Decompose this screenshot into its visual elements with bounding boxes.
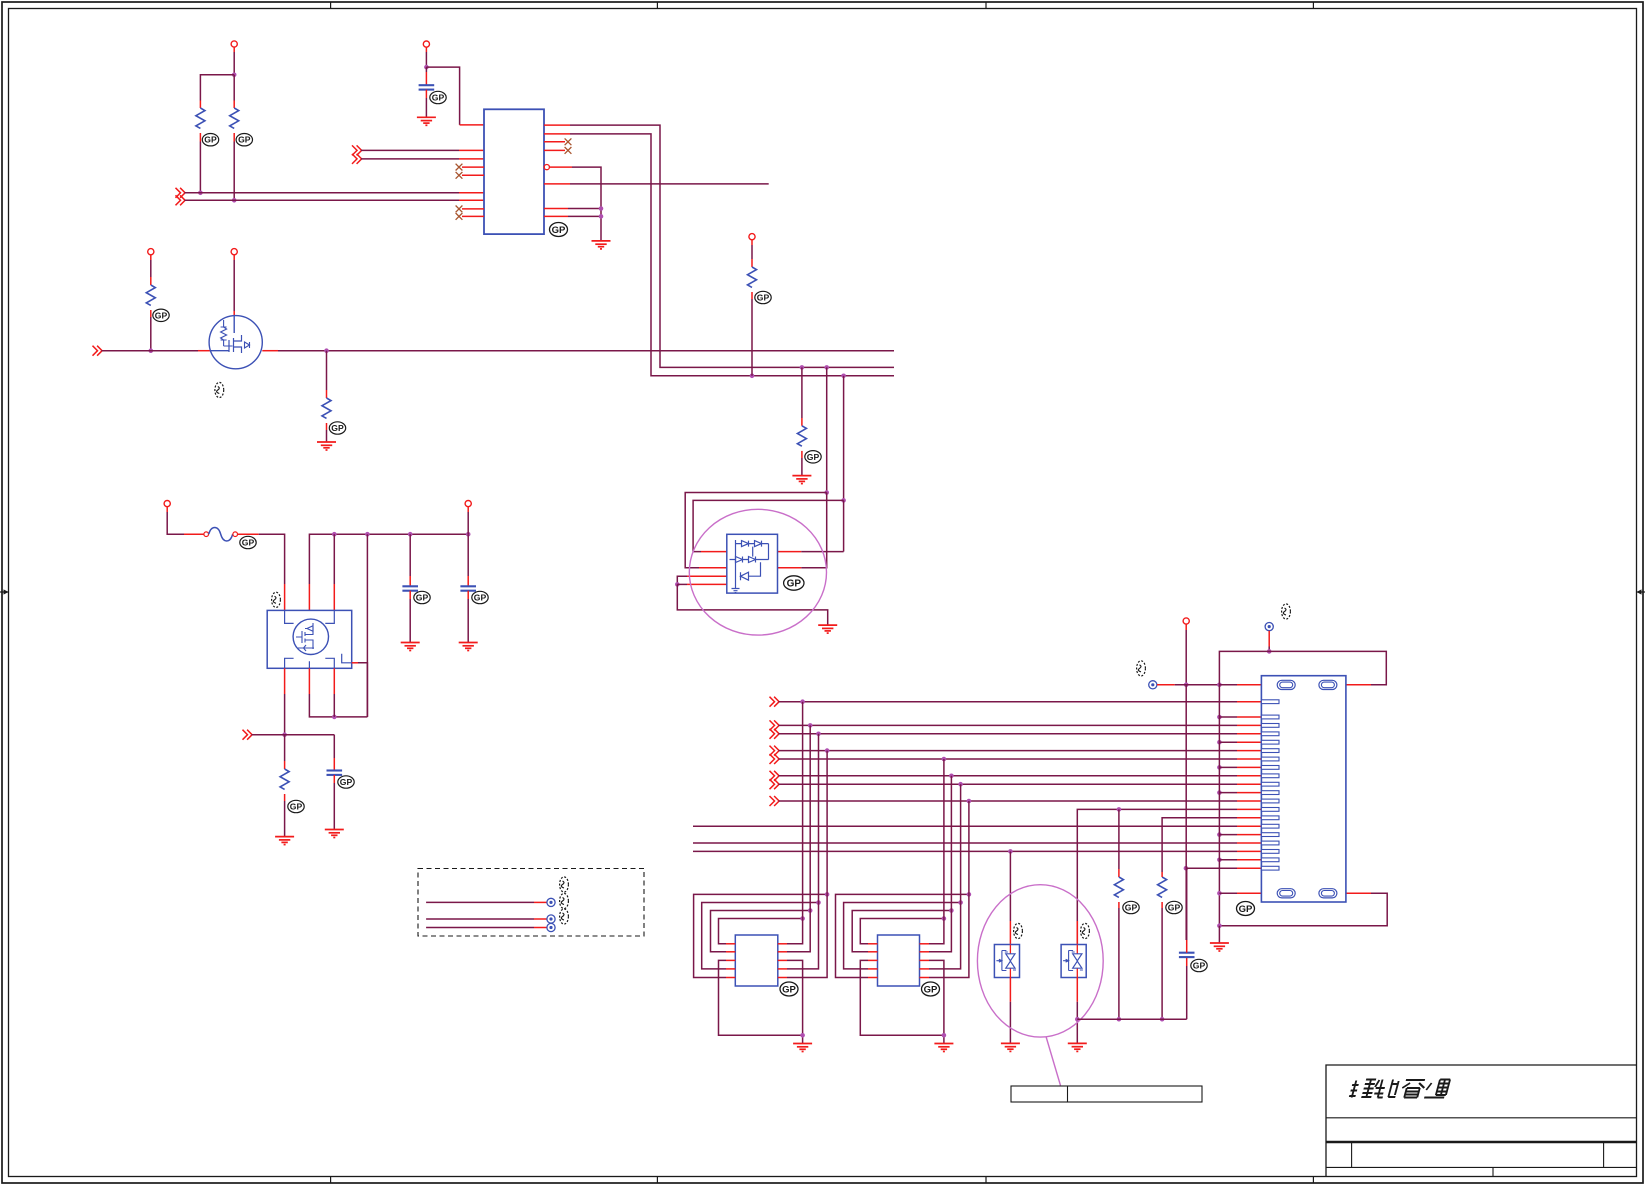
wire L2 loop y902.5 xyxy=(844,784,963,969)
label C1 GP xyxy=(430,91,446,103)
node bus B1 junctions xyxy=(800,365,829,370)
wire J1 bottom left pin xyxy=(1217,891,1261,896)
resistor R8 xyxy=(1114,809,1123,1021)
label net oval above BP2 xyxy=(1282,604,1291,619)
TVS diode D1 xyxy=(994,851,1019,1043)
testpoint TP1 xyxy=(547,898,555,906)
svg-text:GP: GP xyxy=(807,452,820,462)
input arrow net2 xyxy=(770,720,780,730)
input arrow net6 xyxy=(770,771,780,781)
svg-text:GP: GP xyxy=(787,579,802,590)
resistor R3 xyxy=(748,245,757,299)
label D2 oval xyxy=(1081,923,1090,938)
wire R1 to bus1 xyxy=(198,142,203,196)
wire gate bus xyxy=(102,350,230,352)
label Q5 oval xyxy=(272,592,281,607)
svg-text:GP: GP xyxy=(155,310,168,320)
wire P5 to fuse xyxy=(167,512,204,534)
label R9 GP xyxy=(1166,901,1182,913)
wire R9 pin row xyxy=(1162,818,1261,872)
svg-text:GP: GP xyxy=(782,984,796,995)
svg-text:GP: GP xyxy=(1125,903,1138,913)
label R4 GP xyxy=(805,451,821,463)
wire shield vertical xyxy=(1218,685,1220,926)
label C5 GP xyxy=(1191,959,1207,971)
label R6 GP xyxy=(329,422,345,434)
wire L1 loop y902.5 xyxy=(702,734,821,969)
power pin P2b xyxy=(231,249,237,260)
wire power pin row n20 xyxy=(1184,866,1262,871)
wire net2 to connector pin xyxy=(779,723,1262,728)
wire bus B2 to D3 loop2 xyxy=(841,376,846,503)
wire BP2 to shield rail xyxy=(1267,631,1272,654)
resistor R2 xyxy=(230,108,239,142)
transistor Q5 package xyxy=(267,610,352,668)
node rail junctions xyxy=(332,532,471,537)
highlight ellipse TVS xyxy=(977,885,1103,1037)
wire D3 loop2 xyxy=(693,500,844,551)
label TP ovals xyxy=(560,877,569,924)
wire L2 loop y910.5 xyxy=(852,776,954,952)
wire R2 to bus2 xyxy=(232,142,237,203)
wire net6 to connector pin xyxy=(779,774,1262,779)
title block xyxy=(1326,1065,1636,1176)
input arrow net5 xyxy=(770,754,780,764)
wire junction to R2 top xyxy=(233,75,235,108)
resistor R6 xyxy=(322,351,331,430)
label D1 oval xyxy=(1014,923,1023,938)
highlight circle D3 xyxy=(689,509,826,635)
IC U1 xyxy=(484,109,544,234)
ground D1 xyxy=(1001,1043,1020,1051)
wire R7 to ground xyxy=(284,801,286,837)
label R2 GP xyxy=(236,134,252,146)
wire bus2 to U1 xyxy=(185,199,484,201)
label Q2 oval xyxy=(215,382,224,397)
wire gate row xyxy=(252,735,335,758)
wire bus1 to U1 xyxy=(185,192,484,194)
capacitor C1 xyxy=(419,67,435,117)
wire Q5 bottom pin3 xyxy=(333,668,335,717)
label U1 GP xyxy=(550,223,568,237)
wire R3 to bus B2 xyxy=(751,299,753,376)
wire P2b to Q2 drain xyxy=(233,260,235,316)
label L2 GP xyxy=(922,982,940,996)
svg-text:GP: GP xyxy=(552,225,566,236)
label R1 GP xyxy=(202,134,218,146)
svg-text:GP: GP xyxy=(1168,903,1181,913)
wire shield top rail xyxy=(1219,651,1386,684)
wire L1 loop y894.4 xyxy=(694,751,830,978)
ground U1 xyxy=(592,241,611,249)
ground D2 xyxy=(1068,1043,1087,1051)
label J1 GP xyxy=(1237,902,1255,916)
power pin P2 xyxy=(148,249,154,260)
wire net3 to connector pin xyxy=(779,732,1262,737)
label net oval near BP1 xyxy=(1137,661,1146,676)
wire Q2 out bus Q xyxy=(262,350,894,352)
no-connect pins U1 left xyxy=(456,164,484,220)
power pin P3 xyxy=(423,41,429,52)
wire U1 out1 to bus B1 xyxy=(544,125,894,367)
wire R5 to gate bus xyxy=(149,317,154,353)
testpoint dashed box xyxy=(418,869,644,937)
label R5 GP xyxy=(153,309,169,321)
capacitor C2 xyxy=(327,758,343,830)
wire D3 loop1 right xyxy=(778,493,827,568)
node rail716 junction xyxy=(332,715,337,720)
wire net5 to connector pin xyxy=(779,757,1262,762)
label R8 GP xyxy=(1123,901,1139,913)
capacitor C4 xyxy=(460,534,476,642)
input arrow Q5 gate xyxy=(243,730,253,740)
svg-text:GP: GP xyxy=(1193,961,1206,971)
wire D3 gnd pins xyxy=(675,576,727,587)
node bus Q junction xyxy=(324,348,329,353)
label R7 GP xyxy=(288,800,304,812)
wire BP1 to J1 xyxy=(1157,683,1261,688)
wire L1 loop y910.5 xyxy=(711,725,813,951)
ground C4 xyxy=(459,643,478,651)
ground L1 xyxy=(793,1044,812,1052)
power pin P4 xyxy=(749,234,755,245)
svg-text:GP: GP xyxy=(331,423,344,433)
wire net8 to connector pin xyxy=(779,799,1262,804)
svg-text:GP: GP xyxy=(416,593,429,603)
TVS diode D2 xyxy=(1061,921,1086,1043)
wire shield to ground xyxy=(1218,926,1220,943)
wire P1 to junction xyxy=(232,52,237,77)
input arrows U1 rows xyxy=(352,145,362,164)
wire testpoint TP3 xyxy=(426,927,547,929)
wire L2 loop y894.4 xyxy=(836,801,972,978)
wire testpoint TP1 xyxy=(426,901,547,903)
wire D3 gnd loop xyxy=(677,584,827,625)
input arrow net4 xyxy=(770,746,780,756)
svg-text:GP: GP xyxy=(204,135,217,145)
transistor Q2 xyxy=(209,316,262,369)
capacitor C3 xyxy=(402,534,418,642)
diode array D3 xyxy=(727,534,778,593)
ground R7 xyxy=(275,837,294,845)
wire bus n17 xyxy=(693,842,1261,844)
ground L2 xyxy=(934,1044,953,1052)
revision table xyxy=(1011,1086,1202,1102)
input arrows bus1 bus2 xyxy=(176,188,186,206)
wire L2 loop y918.5 xyxy=(860,759,946,944)
company name text xyxy=(1349,1080,1450,1098)
label R3 GP xyxy=(755,291,771,303)
connector J1 xyxy=(1261,676,1346,902)
svg-text:GP: GP xyxy=(238,135,251,145)
blue pin BP1 xyxy=(1149,681,1157,689)
ground C2 xyxy=(325,830,344,838)
input arrow net1 xyxy=(770,697,780,707)
wire shield pin row xyxy=(1217,740,1261,745)
resistor R5 xyxy=(146,260,155,317)
wire U1 out2 to bus B2 xyxy=(544,134,894,376)
resistor R1 xyxy=(196,108,205,142)
wire shield pin row xyxy=(1217,715,1261,720)
wire P3 to junction node A xyxy=(424,52,429,69)
wire J1 bottom right U xyxy=(1217,893,1387,928)
wire L1 loop y918.5 xyxy=(719,702,805,944)
ground R6 xyxy=(317,442,336,450)
wire junction to R1 top xyxy=(200,75,234,108)
wire Q5 bottom pin1 to gate row xyxy=(282,668,287,737)
ground R4 xyxy=(792,476,811,484)
wire D3 loop2 right xyxy=(778,500,844,551)
wire Q5 bottom pin2 xyxy=(309,668,367,717)
input arrow net7 xyxy=(770,779,780,789)
callout line xyxy=(1046,1037,1061,1086)
resistor R9 xyxy=(1158,872,1167,1022)
svg-text:GP: GP xyxy=(757,293,770,303)
input arrow Q2 gate xyxy=(93,346,103,356)
wire shield pin row xyxy=(1217,765,1261,770)
wire node A to U1 pin1 xyxy=(426,67,484,125)
label C4 GP xyxy=(472,591,488,603)
wire gnd rail 1019 xyxy=(1077,1018,1186,1020)
label L1 GP xyxy=(780,982,798,996)
ground C1 xyxy=(417,117,436,125)
wire shield pin row xyxy=(1217,832,1261,837)
wire bus B1 to D3 loop1 xyxy=(824,367,829,494)
svg-text:GP: GP xyxy=(1239,904,1253,915)
power pin P5 xyxy=(164,501,170,513)
wire U1 gnd pins xyxy=(544,206,603,219)
wire net7 to connector pin xyxy=(779,782,1262,787)
wire rail right bypass xyxy=(366,534,368,717)
capacitor C5 xyxy=(1179,868,1195,1019)
wire R4 to ground xyxy=(801,458,803,476)
label C2 GP xyxy=(338,776,354,788)
blue pin BP2 xyxy=(1265,623,1273,631)
testpoint TP2 xyxy=(547,915,555,923)
wire bus n15 xyxy=(693,825,1261,827)
choke L2 xyxy=(878,935,920,986)
ground D3 xyxy=(818,625,837,633)
power pin P6 xyxy=(465,501,471,535)
wire arrows to U1 pins xyxy=(361,150,484,159)
label D3 GP xyxy=(784,576,804,590)
svg-text:GP: GP xyxy=(474,593,487,603)
wire shield pin row xyxy=(1217,858,1261,863)
wire net4 to connector pin xyxy=(779,748,1262,753)
resistor R4 xyxy=(797,367,806,458)
wire fuse to Q5 top pin1 xyxy=(238,534,285,610)
wire bus n18 xyxy=(693,849,1261,854)
ground J1 shield xyxy=(1210,943,1229,951)
svg-text:GP: GP xyxy=(432,93,445,103)
wire testpoint TP2 xyxy=(426,918,547,920)
choke L1 xyxy=(735,935,778,986)
testpoint TP3 xyxy=(547,923,555,931)
svg-text:GP: GP xyxy=(924,984,938,995)
wire shield pin row xyxy=(1217,790,1261,795)
svg-text:GP: GP xyxy=(290,802,303,812)
input arrow net8 xyxy=(770,796,780,806)
node bus B2 junctions xyxy=(750,374,846,379)
no-connect pins U1 right xyxy=(544,138,571,153)
fuse F1 xyxy=(204,527,238,541)
label F1 GP xyxy=(240,536,256,548)
input arrow net3 xyxy=(770,729,780,739)
wire P7 down to pin20 xyxy=(1184,630,1189,940)
resistor R7 xyxy=(280,735,289,801)
wire L2 gnd pins xyxy=(860,960,946,1043)
power pin P7 xyxy=(1183,618,1189,630)
svg-text:GP: GP xyxy=(242,538,255,548)
wire TVS D2 pin row xyxy=(1077,807,1261,944)
wire U1 pin row6 free end xyxy=(544,183,769,185)
wire R6 to ground xyxy=(326,430,328,442)
wire rail to Q5 top pin3 xyxy=(333,534,335,610)
label C3 GP xyxy=(414,591,430,603)
wire bypass up to Q5 right pin xyxy=(352,663,368,717)
wire net1 to connector pin xyxy=(779,699,1262,704)
ground C3 xyxy=(401,643,420,651)
power pin P1 xyxy=(231,41,237,52)
wire D3 loop1 xyxy=(685,493,827,568)
inverted pin U1 xyxy=(544,165,601,241)
svg-text:GP: GP xyxy=(340,777,353,787)
wire L1 gnd pins xyxy=(719,960,805,1043)
wire rail to Q5 top pin2 xyxy=(309,534,468,610)
